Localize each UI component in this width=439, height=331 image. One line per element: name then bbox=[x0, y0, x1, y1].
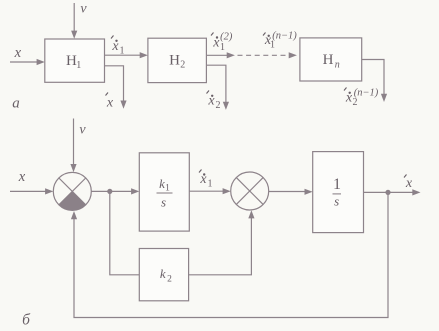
wire x1dot H1 to H2 bbox=[105, 54, 142, 56]
block H2 bbox=[148, 38, 207, 82]
svg-text:v: v bbox=[80, 1, 87, 16]
svg-text:(n−1): (n−1) bbox=[354, 88, 379, 99]
svg-text:(2): (2) bbox=[220, 31, 233, 42]
svg-text:a: a bbox=[12, 95, 20, 111]
svg-text:k: k bbox=[160, 266, 166, 281]
wire x1dot to junction 2 bbox=[189, 190, 224, 192]
label k2 in block bbox=[160, 266, 172, 285]
label x2(n-1) (down from Hn) bbox=[344, 88, 379, 109]
label k1 over s in block bbox=[159, 176, 170, 210]
svg-text:1: 1 bbox=[165, 184, 170, 194]
wire dashed x1(n-1) bbox=[238, 54, 290, 56]
wire junction1 to k1/s with node bbox=[91, 190, 133, 192]
node arrowhead into H1 bbox=[37, 59, 45, 65]
wire junction2 to 1/s bbox=[269, 191, 306, 193]
svg-text:x: x bbox=[405, 176, 413, 191]
svg-text:s: s bbox=[161, 195, 166, 210]
block Hn bbox=[300, 38, 362, 81]
svg-text:H: H bbox=[323, 52, 334, 68]
wire x input (diagram a) bbox=[10, 61, 38, 63]
svg-text:1: 1 bbox=[76, 60, 81, 71]
wire xdot down from H1 bbox=[105, 66, 124, 102]
label x1dot bbox=[111, 36, 125, 57]
wire v input (diagram a) bbox=[73, 3, 75, 32]
wire node A down to k2 bbox=[110, 191, 140, 274]
label xdot (down from H1) bbox=[106, 93, 114, 111]
wire x input (diagram b) bbox=[10, 190, 47, 192]
svg-text:(n−1): (n−1) bbox=[272, 31, 297, 42]
svg-text:1: 1 bbox=[208, 179, 213, 190]
wire output xhat with node bbox=[364, 191, 415, 193]
block k2 bbox=[139, 249, 188, 301]
node dot B bbox=[385, 190, 390, 195]
svg-text:x: x bbox=[14, 45, 22, 61]
wire k2 to junction 2 bottom bbox=[189, 218, 252, 275]
svg-text:1: 1 bbox=[220, 42, 225, 53]
svg-text:x: x bbox=[18, 169, 26, 185]
svg-text:2: 2 bbox=[180, 60, 185, 71]
svg-text:1: 1 bbox=[333, 176, 341, 193]
wire outer feedback from node B to junction 1 bottom bbox=[74, 192, 388, 317]
svg-text:2: 2 bbox=[167, 275, 172, 285]
block H1 bbox=[45, 39, 105, 82]
label x2dd (down from H2) bbox=[207, 91, 221, 112]
svg-text:1: 1 bbox=[120, 46, 125, 57]
svg-text:x: x bbox=[106, 96, 114, 111]
svg-text:2: 2 bbox=[353, 97, 358, 108]
node dot A bbox=[107, 189, 112, 194]
label x1dot (diagram b) bbox=[199, 170, 213, 190]
svg-text:2: 2 bbox=[216, 100, 221, 111]
svg-text:n: n bbox=[335, 60, 340, 71]
label 1 over s in block bbox=[333, 176, 341, 209]
label xhat output bbox=[404, 175, 413, 192]
summing junction 1 (bottom quadrant filled) bbox=[53, 172, 91, 210]
block k1/s bbox=[139, 153, 189, 231]
wire output of Hn down bbox=[362, 60, 384, 95]
svg-text:v: v bbox=[79, 123, 86, 138]
label x1(2) bbox=[211, 31, 233, 53]
svg-text:s: s bbox=[334, 194, 339, 209]
label x1(n-1) over dashed wire bbox=[263, 31, 297, 51]
summing junction 2 bbox=[231, 172, 269, 210]
wire x2dd down from H2 bbox=[206, 65, 226, 102]
svg-text:H: H bbox=[169, 52, 180, 68]
wire x1(2) out of H2 bbox=[206, 54, 228, 56]
block 1/s bbox=[313, 152, 364, 233]
svg-text:б: б bbox=[22, 312, 31, 329]
wire v input (diagram b) bbox=[73, 119, 75, 166]
